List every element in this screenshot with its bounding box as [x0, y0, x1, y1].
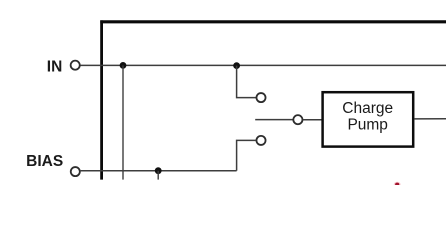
- wire: thick left bus (block outline left edge): [100, 20, 103, 179]
- block U1: Charge Pump: [323, 92, 414, 146]
- wire: pole contact to Charge Pump input: [303, 119, 322, 121]
- svg-text:Charge: Charge: [342, 100, 393, 117]
- junction node C on BIAS wire: [155, 167, 162, 174]
- svg-text:IN: IN: [47, 59, 63, 76]
- svg-text:Pump: Pump: [347, 116, 388, 133]
- svg-text:BIAS: BIAS: [26, 153, 63, 170]
- junction node B on IN wire: [233, 62, 240, 69]
- wire: thick top bus (block outline top edge): [100, 20, 446, 23]
- terminal BIAS: [71, 167, 80, 176]
- red artifact mark (cropped red element at bottom edge): [394, 182, 401, 187]
- switch contact upper (open circle): [256, 93, 265, 102]
- wire: node C stub down: [157, 171, 159, 180]
- wire IN (horizontal net to right edge): [81, 64, 446, 66]
- switch pole blade wire: [255, 119, 293, 121]
- wire: lower switch contact to BIAS net: [237, 140, 257, 170]
- terminal IN: [71, 61, 80, 70]
- wire: node A vertical drop: [122, 65, 124, 179]
- wire: Charge Pump output to right edge: [414, 118, 446, 120]
- switch contact lower (open circle): [256, 136, 265, 145]
- wire: node B to upper switch contact: [237, 66, 257, 98]
- wire BIAS (horizontal net): [81, 170, 237, 172]
- switch pole contact (open circle): [293, 115, 302, 124]
- junction node A on IN wire: [120, 62, 127, 69]
